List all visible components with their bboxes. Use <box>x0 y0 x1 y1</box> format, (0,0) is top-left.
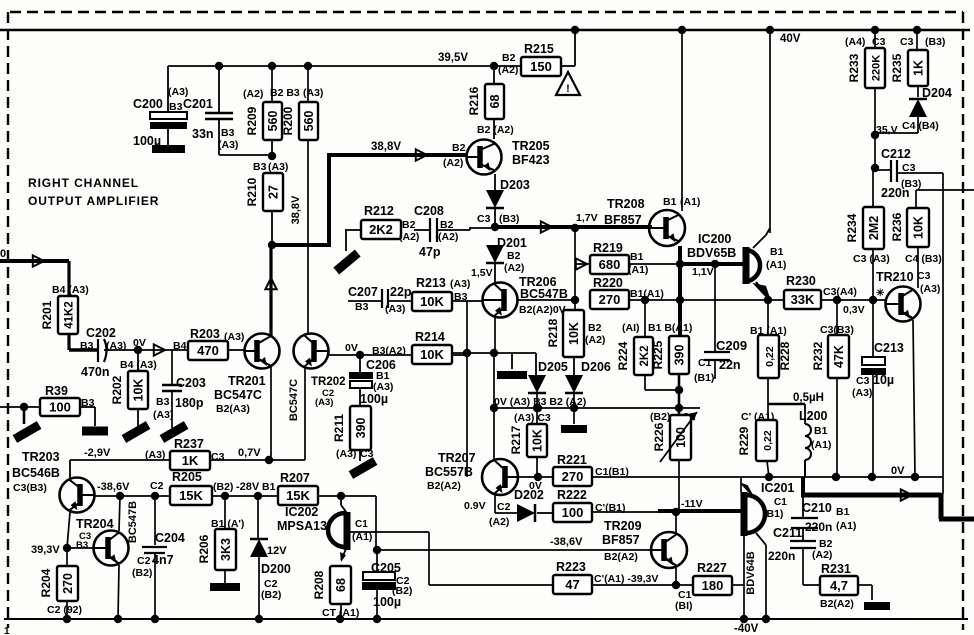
svg-text:B2(A2): B2(A2) <box>820 598 854 610</box>
svg-text:68: 68 <box>334 578 348 592</box>
svg-text:!: ! <box>566 83 570 95</box>
svg-text:B3: B3 <box>221 127 235 139</box>
svg-text:R233: R233 <box>847 53 861 82</box>
svg-text:0V: 0V <box>891 465 905 477</box>
svg-text:TR208: TR208 <box>607 197 645 211</box>
svg-text:C3: C3 <box>872 36 886 48</box>
svg-text:47p: 47p <box>419 245 441 259</box>
svg-text:C203: C203 <box>176 376 206 390</box>
svg-text:0,7V: 0,7V <box>238 447 261 459</box>
svg-text:(A3): (A3) <box>920 283 940 295</box>
svg-text:R207: R207 <box>280 471 310 485</box>
svg-text:(AI): (AI) <box>622 322 640 334</box>
svg-text:R221: R221 <box>557 453 587 467</box>
svg-text:(B3): (B3) <box>499 213 519 225</box>
svg-text:C1(B1): C1(B1) <box>595 466 629 478</box>
svg-text:TR205: TR205 <box>512 139 550 153</box>
svg-text:10K: 10K <box>567 322 581 345</box>
svg-text:C208: C208 <box>414 204 444 218</box>
svg-text:0V: 0V <box>133 337 146 349</box>
svg-text:R232: R232 <box>811 341 825 370</box>
svg-text:B2(A3): B2(A3) <box>216 403 250 415</box>
svg-text:B3: B3 <box>253 161 267 173</box>
svg-text:-40V: -40V <box>734 623 759 635</box>
svg-text:B1: B1 <box>262 481 276 493</box>
svg-text:4,7: 4,7 <box>830 578 848 593</box>
svg-text:0,3V: 0,3V <box>843 304 865 316</box>
svg-text:(A2): (A2) <box>498 64 518 76</box>
svg-text:180p: 180p <box>175 396 204 410</box>
svg-text:(A3): (A3) <box>336 448 356 460</box>
svg-text:C3(B3): C3(B3) <box>13 482 47 494</box>
svg-text:R227: R227 <box>697 561 727 575</box>
svg-text:R200: R200 <box>281 106 295 135</box>
svg-text:47K: 47K <box>832 345 846 368</box>
svg-text:470n: 470n <box>81 365 110 379</box>
svg-text:680: 680 <box>599 257 621 272</box>
svg-text:B1: B1 <box>630 251 644 263</box>
svg-text:R213: R213 <box>416 276 446 290</box>
svg-text:R223: R223 <box>556 560 586 574</box>
svg-text:2M2: 2M2 <box>867 216 881 240</box>
svg-text:R225: R225 <box>651 340 665 369</box>
svg-text:R222: R222 <box>557 488 587 502</box>
svg-text:BF857: BF857 <box>602 533 640 547</box>
svg-text:B2(A2)0V: B2(A2)0V <box>519 304 566 316</box>
svg-text:C4 (B3): C4 (B3) <box>905 253 942 265</box>
svg-text:C2 (92): C2 (92) <box>47 604 82 616</box>
svg-text:(A3): (A3) <box>303 87 323 99</box>
svg-text:B3: B3 <box>76 540 88 551</box>
svg-text:15K: 15K <box>179 488 203 503</box>
svg-text:(A1): (A1) <box>811 439 831 451</box>
svg-text:C3(A4): C3(A4) <box>823 286 857 298</box>
svg-text:(A3): (A3) <box>224 331 244 343</box>
svg-text:-28V: -28V <box>236 481 260 493</box>
svg-text:B2: B2 <box>588 322 602 334</box>
svg-text:B3: B3 <box>80 340 94 352</box>
svg-text:(A2): (A2) <box>438 231 458 243</box>
svg-text:B2 B3: B2 B3 <box>270 87 300 99</box>
svg-text:R212: R212 <box>364 204 394 218</box>
svg-text:C2: C2 <box>137 555 151 567</box>
svg-text:560: 560 <box>302 111 316 132</box>
svg-text:33n: 33n <box>192 127 214 141</box>
svg-text:R217: R217 <box>509 425 523 454</box>
svg-text:10µ: 10µ <box>873 373 894 387</box>
svg-text:BF857: BF857 <box>604 213 642 227</box>
svg-text:TR210: TR210 <box>876 270 914 284</box>
svg-text:1K: 1K <box>912 60 926 76</box>
svg-text:C3: C3 <box>856 375 870 387</box>
svg-text:C1: C1 <box>774 497 787 508</box>
svg-text:C201: C201 <box>183 97 213 111</box>
svg-text:22n: 22n <box>719 358 741 372</box>
svg-text:41K2: 41K2 <box>64 301 76 329</box>
svg-text:MPSA13: MPSA13 <box>277 519 327 533</box>
svg-text:R210: R210 <box>245 177 259 206</box>
svg-text:TR201: TR201 <box>228 374 266 388</box>
svg-text:R203: R203 <box>190 327 220 341</box>
svg-text:C209: C209 <box>716 338 747 353</box>
svg-text:L200: L200 <box>799 409 828 423</box>
svg-text:38,8V: 38,8V <box>371 141 401 153</box>
svg-text:12V: 12V <box>267 545 287 557</box>
svg-text:(BI): (BI) <box>675 600 693 612</box>
svg-text:C212: C212 <box>881 147 911 161</box>
svg-text:C3 (A3): C3 (A3) <box>853 253 890 265</box>
svg-text:(A3): (A3) <box>385 303 405 315</box>
svg-text:68: 68 <box>488 95 502 109</box>
svg-text:(B1): (B1) <box>694 372 714 384</box>
svg-text:1,1V: 1,1V <box>692 266 714 278</box>
svg-text:C1: C1 <box>698 357 712 369</box>
svg-text:B1: B1 <box>814 425 828 437</box>
svg-text:R39: R39 <box>45 384 68 398</box>
svg-text:0,5µH: 0,5µH <box>793 392 824 404</box>
svg-text:(A1): (A1) <box>680 196 700 208</box>
svg-text:R215: R215 <box>524 42 554 56</box>
svg-text:220n: 220n <box>881 186 910 200</box>
svg-text:(B1): (B1) <box>763 508 783 520</box>
svg-text:(A2): (A2) <box>489 516 509 528</box>
svg-text:100: 100 <box>49 400 71 415</box>
svg-text:C207: C207 <box>348 285 378 299</box>
svg-text:IC201: IC201 <box>761 481 794 495</box>
svg-text:B1: B1 <box>663 196 677 208</box>
svg-text:(A2): (A2) <box>812 549 832 561</box>
svg-text:C202: C202 <box>86 326 116 340</box>
svg-text:(A3): (A3) <box>315 397 333 408</box>
svg-text:R209: R209 <box>245 106 259 135</box>
svg-text:OUTPUT AMPLIFIER: OUTPUT AMPLIFIER <box>28 194 159 208</box>
svg-text:390: 390 <box>354 418 368 439</box>
svg-text:(A3): (A3) <box>268 161 288 173</box>
svg-text:2K2: 2K2 <box>639 345 651 366</box>
svg-text:B2(A2): B2(A2) <box>604 551 638 563</box>
svg-text:(A3) C3: (A3) C3 <box>514 412 551 424</box>
svg-text:3K3: 3K3 <box>219 538 233 561</box>
svg-text:220n: 220n <box>805 520 832 534</box>
svg-text:39,5V: 39,5V <box>438 52 468 64</box>
svg-text:(A3): (A3) <box>153 409 173 421</box>
svg-text:(B2): (B2) <box>650 411 670 423</box>
svg-text:270: 270 <box>61 573 75 594</box>
svg-text:(A3): (A3) <box>450 278 470 290</box>
svg-text:BC547C: BC547C <box>288 379 300 421</box>
svg-text:0,22: 0,22 <box>764 346 776 367</box>
svg-text:-38,6V: -38,6V <box>97 481 130 493</box>
svg-text:2K2: 2K2 <box>369 222 393 237</box>
svg-text:B2 (A2): B2 (A2) <box>477 124 514 136</box>
svg-text:100µ: 100µ <box>133 134 161 148</box>
svg-text:220n: 220n <box>768 549 795 563</box>
svg-text:B3: B3 <box>355 301 369 313</box>
svg-text:27: 27 <box>267 185 281 199</box>
svg-text:10K: 10K <box>912 216 926 239</box>
svg-text:B1: B1 <box>770 246 784 258</box>
svg-text:BDV65B: BDV65B <box>687 246 736 260</box>
svg-text:TR202: TR202 <box>311 376 346 388</box>
svg-text:0V: 0V <box>345 342 358 354</box>
svg-text:B2: B2 <box>507 250 521 262</box>
svg-text:(A3): (A3) <box>218 139 238 151</box>
svg-text:R214: R214 <box>415 330 445 344</box>
svg-text:R220: R220 <box>593 276 623 290</box>
svg-text:(A2): (A2) <box>399 231 419 243</box>
svg-text:R201: R201 <box>40 300 54 329</box>
svg-text:BC546B: BC546B <box>12 466 60 480</box>
svg-text:1,5V: 1,5V <box>471 267 493 279</box>
svg-text:TR203: TR203 <box>22 450 60 464</box>
svg-text:R216: R216 <box>467 86 481 115</box>
svg-text:10K: 10K <box>132 379 146 402</box>
svg-text:(A1): (A1) <box>766 259 786 271</box>
svg-text:C2: C2 <box>497 501 511 513</box>
svg-text:R236: R236 <box>890 212 904 241</box>
svg-text:39,3V: 39,3V <box>31 544 60 556</box>
svg-text:1K: 1K <box>182 453 199 468</box>
svg-text:B1 B(A1): B1 B(A1) <box>648 322 692 334</box>
svg-text:C3: C3 <box>477 213 491 225</box>
svg-text:47: 47 <box>565 577 579 592</box>
svg-text:0: 0 <box>0 248 6 260</box>
svg-text:-11V: -11V <box>681 498 703 510</box>
svg-text:150: 150 <box>530 59 552 74</box>
svg-text:B2(A2): B2(A2) <box>427 480 461 492</box>
svg-text:C3: C3 <box>917 270 931 282</box>
svg-text:R230: R230 <box>786 274 816 288</box>
svg-text:TR209: TR209 <box>604 519 642 533</box>
svg-text:100: 100 <box>562 505 584 520</box>
svg-text:BC547B: BC547B <box>520 287 568 301</box>
svg-text:B2: B2 <box>440 219 454 231</box>
svg-text:D200: D200 <box>261 562 291 576</box>
svg-text:470: 470 <box>197 343 219 358</box>
svg-text:100: 100 <box>674 427 688 448</box>
svg-text:C213: C213 <box>874 341 904 355</box>
svg-text:(A2): (A2) <box>443 157 463 169</box>
svg-text:B1: B1 <box>836 506 850 518</box>
svg-text:R224: R224 <box>616 341 630 370</box>
svg-text:270: 270 <box>599 292 621 307</box>
svg-text:R229: R229 <box>737 426 751 455</box>
svg-text:R228: R228 <box>778 341 792 370</box>
svg-text:C211: C211 <box>773 526 802 540</box>
svg-text:BC547C: BC547C <box>214 388 262 402</box>
svg-text:R202: R202 <box>110 375 124 404</box>
svg-text:C210: C210 <box>802 501 832 515</box>
svg-text:D203: D203 <box>500 178 530 192</box>
svg-text:R204: R204 <box>39 568 53 597</box>
svg-text:1,7V: 1,7V <box>576 212 598 224</box>
svg-text:R234: R234 <box>845 213 859 242</box>
svg-text:C2: C2 <box>150 480 164 492</box>
svg-text:100µ: 100µ <box>360 392 388 406</box>
svg-text:10K: 10K <box>420 347 444 362</box>
svg-text:(B3): (B3) <box>925 36 945 48</box>
svg-text:180: 180 <box>702 578 724 593</box>
svg-text:R211: R211 <box>332 414 346 442</box>
svg-text:(A4): (A4) <box>845 36 865 48</box>
svg-text:(B2): (B2) <box>213 481 233 493</box>
svg-text:R235: R235 <box>890 53 904 82</box>
svg-text:C1: C1 <box>355 519 368 530</box>
svg-text:R206: R206 <box>197 534 211 563</box>
svg-text:(A2): (A2) <box>243 88 263 100</box>
svg-text:R219: R219 <box>593 241 623 255</box>
svg-text:15K: 15K <box>286 488 310 503</box>
svg-text:BC547B: BC547B <box>127 501 139 543</box>
svg-text:(A1): (A1) <box>628 264 648 276</box>
svg-text:35,V: 35,V <box>876 124 898 136</box>
svg-text:C'(B1): C'(B1) <box>595 502 626 514</box>
svg-text:R205: R205 <box>172 470 202 484</box>
svg-text:560: 560 <box>266 111 280 132</box>
svg-text:C3: C3 <box>900 36 914 48</box>
svg-text:(B2): (B2) <box>132 567 152 579</box>
svg-text:B2: B2 <box>402 219 416 231</box>
svg-text:IC202: IC202 <box>285 505 318 519</box>
svg-text:C204: C204 <box>155 531 185 545</box>
svg-text:38,8V: 38,8V <box>290 195 302 224</box>
svg-text:C'(A1) -39,3V: C'(A1) -39,3V <box>594 573 658 585</box>
svg-text:10K: 10K <box>420 294 444 309</box>
svg-text:B2: B2 <box>502 52 516 64</box>
svg-text:(A1): (A1) <box>836 520 856 532</box>
svg-text:-38,6V: -38,6V <box>550 536 583 548</box>
svg-text:R226: R226 <box>652 422 666 451</box>
svg-text:(A3): (A3) <box>852 387 872 399</box>
svg-text:0.9V: 0.9V <box>464 500 486 512</box>
svg-text:RIGHT CHANNEL: RIGHT CHANNEL <box>28 176 139 190</box>
svg-text:(A2): (A2) <box>504 262 524 274</box>
svg-text:B3: B3 <box>156 396 170 408</box>
svg-text:C3: C3 <box>211 451 225 463</box>
svg-text:1: 1 <box>4 626 10 635</box>
svg-text:C4 (B4): C4 (B4) <box>902 120 939 132</box>
svg-text:D206: D206 <box>581 360 611 374</box>
svg-text:40V: 40V <box>780 33 801 45</box>
svg-text:C': C' <box>741 411 751 423</box>
svg-text:(A2): (A2) <box>585 334 605 346</box>
svg-text:BF423: BF423 <box>512 153 550 167</box>
svg-text:B2: B2 <box>452 142 466 154</box>
svg-text:10K: 10K <box>531 429 545 452</box>
svg-text:R218: R218 <box>546 318 560 347</box>
svg-text:R231: R231 <box>821 562 851 576</box>
svg-text:R237: R237 <box>174 437 204 451</box>
svg-text:220K: 220K <box>871 55 883 81</box>
svg-text:R208: R208 <box>312 570 326 599</box>
svg-text:D202: D202 <box>514 488 544 502</box>
svg-text:0,22: 0,22 <box>762 430 774 451</box>
svg-text:TR207: TR207 <box>438 451 476 465</box>
svg-text:B4 (A3): B4 (A3) <box>120 359 157 371</box>
svg-text:-2,9V: -2,9V <box>84 447 111 459</box>
svg-text:33K: 33K <box>791 292 815 307</box>
svg-text:390: 390 <box>673 345 687 366</box>
svg-text:BDV64B: BDV64B <box>745 551 757 594</box>
svg-text:BC557B: BC557B <box>425 465 473 479</box>
svg-text:✳: ✳ <box>876 288 885 299</box>
svg-text:270: 270 <box>562 469 584 484</box>
svg-text:B3: B3 <box>169 101 183 113</box>
svg-text:B4 (A3): B4 (A3) <box>52 284 89 296</box>
svg-text:D205: D205 <box>538 360 568 374</box>
svg-text:22p: 22p <box>390 285 412 299</box>
svg-text:IC200: IC200 <box>698 232 731 246</box>
svg-text:(B2): (B2) <box>261 589 281 601</box>
svg-text:TR204: TR204 <box>76 517 114 531</box>
svg-text:C200: C200 <box>133 97 163 111</box>
